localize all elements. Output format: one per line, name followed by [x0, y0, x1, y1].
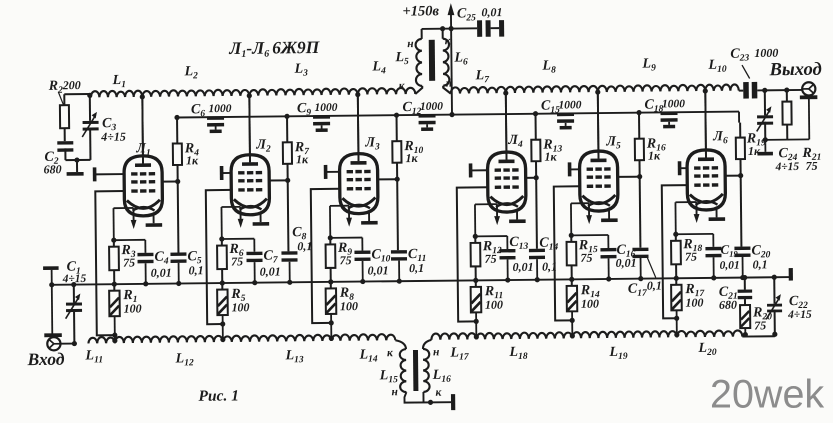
svg-text:+150в: +150в [402, 3, 439, 19]
inductor L19 [572, 331, 677, 338]
node cathode R3 top [111, 237, 145, 243]
resistor R9 75 [325, 238, 335, 282]
wire control grid Л4 to grid line [457, 187, 489, 324]
inductor L8 [506, 86, 598, 93]
inductor L6 [443, 39, 450, 86]
resistor R6 75 [217, 239, 227, 283]
capacitor C7 0,01 [246, 239, 262, 283]
wire transformer bottom [404, 392, 451, 406]
ground bar g3 Л5 [568, 162, 572, 176]
capacitor C8 0,1 [281, 251, 297, 282]
resistor R20 75 [740, 305, 750, 337]
svg-text:1000: 1000 [208, 103, 231, 115]
ground bar input connector [44, 333, 62, 337]
svg-text:1000: 1000 [314, 102, 337, 114]
svg-text:4÷15: 4÷15 [62, 273, 87, 285]
node R13 top [533, 111, 538, 116]
node junctions on lower bus [220, 280, 293, 286]
svg-text:1000: 1000 [558, 99, 581, 111]
wire cathode Л5 [571, 203, 589, 235]
wire control grid Л1 to grid line [95, 191, 126, 338]
inductor L4 [358, 88, 416, 95]
title Л1-Л6 6Ж9П [228, 37, 321, 60]
cathode arrow Л5 [586, 203, 592, 224]
label R12 75 [482, 239, 502, 266]
ground bar C24 [757, 140, 773, 156]
wire anode tap Л2 [247, 93, 253, 162]
svg-text:0,1: 0,1 [189, 263, 204, 277]
ground bar under Л1 [146, 223, 163, 227]
node screen grid Л4 [526, 175, 539, 180]
wire screen node to C17 [639, 177, 642, 248]
wire g3 lead Л6 [680, 167, 687, 169]
label C5 0,1 [187, 249, 203, 277]
svg-text:100: 100 [231, 300, 249, 314]
wire anode tap Л3 [355, 92, 361, 161]
wire cathode Л2 [221, 207, 240, 239]
label R17 100 [684, 282, 705, 310]
node cathode R12 top [473, 233, 508, 239]
svg-text:Рис. 1: Рис. 1 [198, 387, 239, 404]
wire tube shield lead Л6 [715, 207, 717, 217]
label L7 [475, 68, 491, 85]
label L20 [697, 341, 716, 358]
label C12 1000 [402, 100, 443, 117]
label R21 75 [801, 146, 821, 173]
label Вход [26, 349, 64, 369]
cathode arrow Л3 [346, 206, 352, 227]
svg-text:75: 75 [484, 252, 496, 266]
svg-text:75: 75 [231, 254, 243, 268]
vacuum tube Л2 (6Ж9П) [230, 96, 269, 215]
resistor R21 75 [782, 87, 792, 139]
output connector Выход [802, 82, 815, 95]
wire control grid Л6 to grid line [662, 185, 689, 321]
label L5 [394, 50, 409, 67]
svg-text:75: 75 [580, 251, 592, 265]
label C15 1000 [541, 98, 582, 115]
ground bar under Л6 [709, 217, 726, 221]
inductor L2 [142, 89, 249, 96]
label C13 0,01 [509, 235, 533, 274]
label R11 100 [484, 284, 504, 312]
label R7 1к [294, 140, 311, 166]
inductor L16 [423, 349, 430, 392]
label R14 100 [580, 283, 600, 311]
wire control grid Л3 to grid line [311, 189, 341, 326]
node junctions on lower bus [328, 279, 402, 285]
node grid line tap [112, 338, 117, 343]
label R6 75 [228, 242, 244, 269]
ground bar C18 [663, 125, 675, 129]
label C9 1000 [297, 101, 338, 118]
resistor R16 1к [635, 113, 645, 177]
label Л4 [507, 133, 523, 150]
label Л5 [605, 134, 621, 151]
ground bar C25 [499, 20, 504, 37]
ground bar C9 [316, 128, 328, 132]
inductor L17 [431, 333, 476, 340]
svg-text:0,01: 0,01 [368, 263, 389, 277]
label L12 [174, 351, 193, 368]
capacitor C24 trimmer [756, 88, 773, 143]
label Выход [768, 60, 821, 81]
svg-text:100: 100 [685, 295, 703, 309]
label +150в [402, 3, 439, 19]
label R15 75 [578, 238, 598, 265]
svg-text:0,01: 0,01 [481, 5, 502, 19]
label R19 1к [746, 131, 766, 158]
resistor R3 75 [109, 240, 119, 284]
inductor L9 [598, 85, 706, 92]
capacitor C15 1000 on screen bus [557, 113, 574, 126]
svg-text:200: 200 [62, 78, 81, 92]
label C25 0,01 [457, 5, 503, 23]
label L8 [541, 59, 556, 76]
label L13 [284, 348, 303, 365]
wire L4 to L5 [415, 86, 422, 94]
label n L5 top [407, 38, 414, 50]
label C22 4÷15 [787, 294, 812, 321]
label L14 [358, 347, 377, 364]
ground bar g3 Л1 [93, 167, 97, 181]
svg-text:75: 75 [685, 250, 697, 264]
svg-text:1000: 1000 [662, 98, 685, 110]
svg-text:100: 100 [485, 298, 503, 312]
label C11 0,1 [408, 247, 427, 275]
capacitor C18 1000 on screen bus [660, 111, 677, 124]
label L9 [641, 56, 656, 73]
capacitor C6 1000 on screen bus [207, 116, 224, 129]
wire g3 lead Л4 [471, 169, 488, 171]
label R5 100 [230, 287, 249, 315]
label C19 0,01 [719, 242, 739, 272]
input connector Вход [47, 337, 77, 351]
node cathode R18 top [673, 231, 713, 237]
ground bar lower bus right end [789, 268, 793, 281]
inductor L7 [451, 87, 506, 94]
inductor L18 [476, 332, 572, 339]
label C7 0,01 [259, 248, 280, 278]
capacitor C13 0,01 [499, 236, 515, 280]
resistor R14 100 [567, 279, 578, 338]
resistor R11 100 [471, 280, 482, 339]
label R20 75 [752, 305, 772, 332]
capacitor C20 0,1 [734, 247, 750, 278]
wire L6 leads [443, 29, 451, 94]
node top rail start [87, 93, 92, 98]
wire screen node to C14 [535, 178, 538, 249]
svg-text:0,1: 0,1 [753, 257, 768, 271]
wire tube shield lead Л1 [153, 213, 155, 223]
wire L16 to L17 [423, 340, 432, 349]
node cathode R15 top [569, 232, 609, 238]
label L1 [112, 73, 126, 90]
svg-text:100: 100 [340, 299, 358, 313]
label Л6 [712, 129, 728, 146]
wire g3 lead Л2 [222, 172, 231, 174]
node R16 top [636, 110, 641, 115]
svg-text:0,1: 0,1 [297, 239, 312, 253]
node grid line tap [220, 337, 225, 342]
wire tube shield lead Л5 [608, 208, 610, 218]
label C23 1000 [730, 46, 778, 79]
node screen grid Л3 [378, 177, 400, 182]
wire +150V top link [422, 26, 478, 32]
capacitor C22 trimmer [766, 275, 783, 337]
label C18 1000 [644, 97, 685, 114]
ground bar transformer bottom [451, 394, 455, 410]
capacitor C4 0,01 [137, 240, 153, 284]
label Л3 [364, 135, 380, 152]
svg-text:1000: 1000 [420, 101, 443, 113]
label C20 0,1 [751, 243, 770, 271]
node R7 top [284, 114, 289, 119]
svg-text:680: 680 [43, 162, 61, 176]
svg-text:100: 100 [123, 301, 141, 315]
label C1 4÷15 [62, 259, 87, 285]
svg-text:1к: 1к [296, 152, 309, 166]
svg-text:н: н [433, 346, 440, 358]
wire cathode Л3 [330, 206, 349, 238]
node screen grid Л6 [725, 173, 743, 178]
wire g3 lead Л5 [570, 168, 580, 170]
ground bar under Л4 [509, 219, 526, 223]
inductor L3 [249, 88, 358, 95]
wire cathode Л4 [475, 204, 497, 236]
label Л2 [255, 138, 271, 155]
node screen grid Л1 [162, 179, 180, 184]
svg-text:75: 75 [754, 318, 766, 332]
label R1 100 [122, 288, 141, 316]
svg-text:75: 75 [805, 159, 817, 173]
wire anode tap Л5 [595, 89, 601, 158]
ground bar C6 [210, 130, 222, 134]
wire anode tap Л4 [503, 90, 509, 159]
vacuum tube Л4 (6Ж9П) [487, 93, 526, 212]
label L16 [432, 368, 451, 385]
capacitor C1 trimmer [65, 282, 82, 344]
svg-text:1к: 1к [405, 151, 418, 165]
capacitor C12 1000 on screen bus [419, 114, 436, 127]
wire anode tap Л1 [140, 94, 146, 163]
svg-text:0,1: 0,1 [542, 260, 557, 274]
capacitor C25 [477, 20, 499, 37]
node grid line tap [329, 336, 334, 341]
label C21 680 [719, 285, 738, 312]
label R10 1к [403, 139, 423, 165]
resistor R8 100 [326, 282, 337, 341]
node junctions on lower bus [569, 276, 643, 282]
svg-text:0,01: 0,01 [260, 264, 281, 278]
wire screen node to C11 [396, 179, 399, 250]
ground bar C15 [560, 126, 572, 130]
label L4 [371, 59, 386, 76]
node grid line tap [474, 334, 479, 339]
vacuum tube Л5 (6Ж9П) [579, 92, 618, 211]
label C4 0,01 [150, 250, 171, 280]
label C8 0,1 [292, 225, 312, 253]
label L11 [84, 348, 103, 365]
svg-text:1000: 1000 [754, 46, 778, 60]
resistor R4 1к [173, 117, 183, 181]
ground bar (left termination) [67, 172, 84, 176]
svg-text:75: 75 [123, 255, 135, 269]
capacitor C5 0,1 [170, 252, 186, 283]
label R16 1к [646, 136, 666, 162]
ground bar C12 [421, 127, 433, 131]
wire tube shield lead Л4 [516, 209, 518, 219]
ground bar output connector [800, 95, 818, 99]
svg-text:Выход: Выход [768, 60, 821, 81]
label C17 0,1 [628, 255, 662, 298]
node grid line tap [674, 332, 679, 337]
capacitor C23 [739, 81, 803, 98]
cathode arrow Л1 [131, 208, 137, 229]
wire tube shield lead Л3 [368, 211, 370, 221]
wire L5 top lead [421, 29, 423, 39]
label R3 75 [120, 243, 136, 270]
resistor R18 75 [671, 234, 681, 278]
capacitor C3 trimmer [82, 96, 99, 160]
svg-text:20wek: 20wek [710, 373, 824, 417]
label Л1 [135, 141, 151, 158]
label L6 [453, 50, 468, 67]
label L19 [608, 345, 627, 362]
label k L5 bottom [399, 80, 406, 92]
label L3 [293, 62, 308, 79]
wire screen node to C20 [740, 176, 743, 247]
transformer core (grid line) [413, 350, 418, 391]
svg-text:0,01: 0,01 [720, 260, 740, 272]
node R10 top [394, 113, 399, 118]
label L2 [183, 64, 198, 81]
node screen grid Л5 [618, 174, 643, 179]
ground bar g3 Л3 [324, 165, 328, 179]
label n L6 bottom [446, 78, 453, 90]
label L15 [379, 368, 398, 385]
node junctions on lower bus [112, 281, 182, 287]
inductor L12 [115, 336, 223, 343]
supply +150V arrow [447, 3, 455, 117]
inductor L5 [415, 39, 422, 86]
label C2 680 [43, 150, 61, 177]
svg-text:4÷15: 4÷15 [787, 309, 812, 321]
label R8 100 [339, 286, 358, 314]
svg-text:75: 75 [339, 253, 351, 267]
capacitor C17 0,1 [632, 248, 648, 279]
label R13 1к [542, 137, 562, 163]
label R9 75 [337, 241, 353, 268]
svg-text:4÷15: 4÷15 [775, 161, 800, 173]
svg-text:1к: 1к [544, 150, 557, 164]
wire control grid Л5 to grid line [554, 186, 581, 323]
ground bar under Л2 [253, 222, 270, 226]
resistor R12 75 [470, 236, 480, 280]
wire output ground link [765, 98, 809, 140]
label R4 1к [184, 141, 200, 167]
svg-text:1к: 1к [648, 148, 661, 162]
resistor R13 1к [531, 114, 541, 178]
wire screen node to C5 [177, 181, 180, 252]
svg-text:680: 680 [719, 298, 737, 312]
label n L15 bottom [391, 386, 398, 398]
resistor R15 75 [566, 235, 576, 279]
label C6 1000 [191, 102, 232, 119]
resistor R19 1к [736, 123, 746, 176]
node junctions on lower bus [473, 277, 540, 283]
wire C2/C3 common to ground [65, 157, 90, 172]
svg-text:Вход: Вход [26, 349, 64, 369]
node R4 top [174, 115, 179, 120]
inductor L10 [705, 84, 739, 91]
cathode arrow Л6 [694, 202, 700, 223]
capacitor C21 680 [737, 275, 752, 305]
label n L16 top [433, 346, 440, 358]
label C14 0,1 [539, 236, 558, 274]
inductor L15 [400, 349, 407, 392]
ground bar g3 Л4 [469, 163, 473, 177]
svg-text:н: н [407, 38, 414, 50]
ground bar lower bus left [43, 266, 59, 334]
ground bar g3 Л2 [220, 166, 224, 180]
inductor L14 [331, 334, 395, 341]
label R18 75 [682, 237, 702, 264]
svg-text:100: 100 [581, 297, 599, 311]
wire g3 lead Л3 [326, 171, 340, 173]
label k L16 bottom [435, 387, 442, 399]
ground bar under Л5 [601, 218, 618, 222]
resistor R1 100 [109, 284, 120, 343]
label C24 4÷15 [774, 146, 799, 173]
label k L6 top [445, 35, 452, 47]
label C3 4÷15 [100, 116, 126, 144]
inductor L11 [88, 337, 115, 344]
vacuum tube Л6 (6Ж9П) [686, 91, 725, 210]
svg-text:1к: 1к [748, 144, 761, 158]
wire top rail start to R2/C3 node [64, 94, 90, 96]
capacitor C11 0,1 [391, 250, 407, 281]
label C16 0,01 [615, 243, 636, 270]
ground bar g3 Л6 [678, 161, 682, 175]
cathode arrow Л2 [238, 207, 244, 228]
cathode arrow Л4 [494, 204, 500, 225]
svg-text:н: н [391, 386, 398, 398]
node junctions on lower bus [674, 275, 746, 281]
svg-text:0,01: 0,01 [513, 260, 534, 274]
capacitor C10 0,01 [354, 237, 370, 281]
wire lower bus [51, 277, 790, 285]
wire screen bus [177, 112, 739, 129]
svg-text:0,01: 0,01 [151, 266, 172, 280]
wire L14 to L15 [395, 340, 406, 349]
inductor L20 [677, 330, 743, 337]
node grid line tap [570, 333, 575, 338]
wire tube shield lead Л2 [260, 212, 262, 222]
node cathode R9 top [328, 235, 363, 241]
label k L15 top [387, 347, 394, 359]
wire g3 lead Л1 [95, 173, 124, 175]
wire cathode Л1 [113, 208, 133, 240]
node cathode R6 top [219, 236, 254, 242]
resistor R10 1к [392, 115, 402, 179]
transformer core [429, 40, 435, 81]
capacitor C19 0,01 [705, 234, 721, 278]
caption Рис. 1 [198, 387, 239, 404]
wire control grid Л2 to grid line [206, 190, 233, 327]
wire screen node to C8 [287, 180, 290, 251]
label R2 200 [48, 78, 81, 105]
